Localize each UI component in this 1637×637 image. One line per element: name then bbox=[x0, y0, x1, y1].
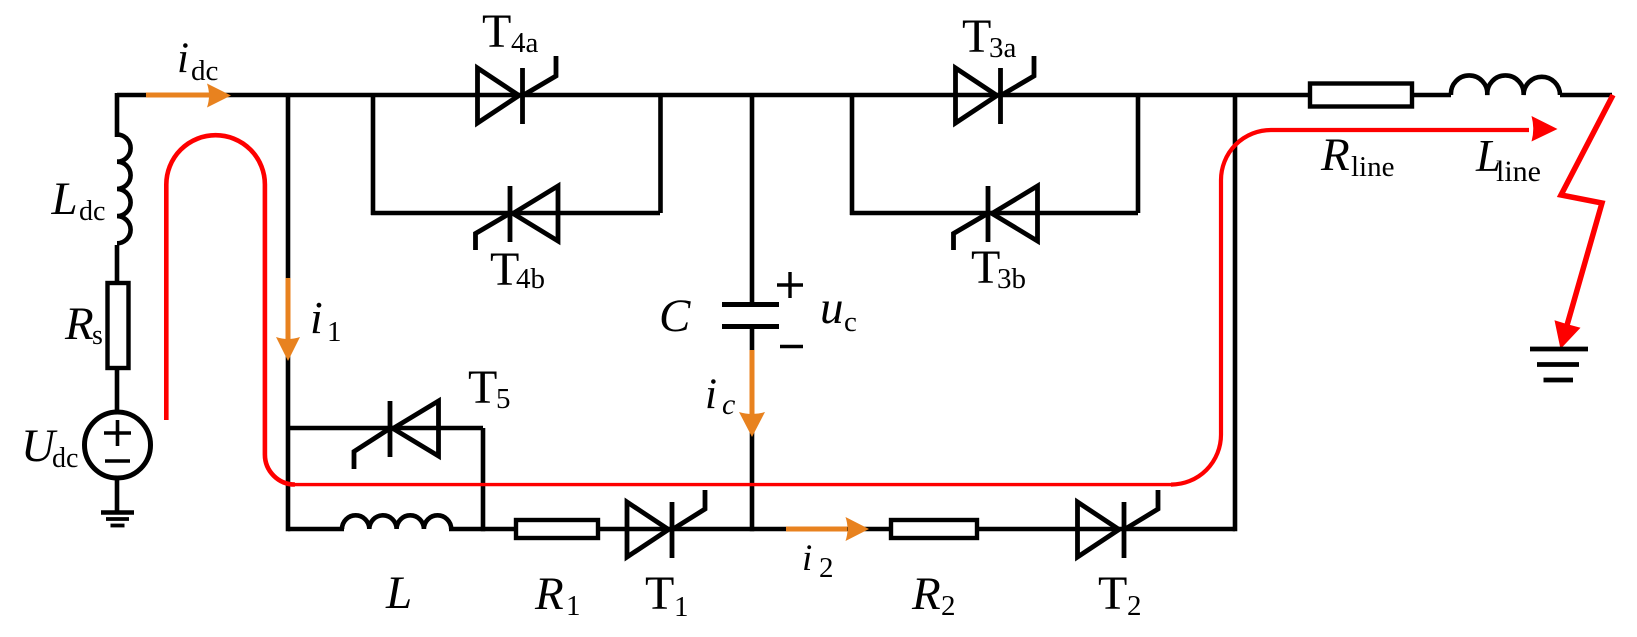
orange arrow i2 bbox=[786, 527, 847, 532]
svg-text:i: i bbox=[802, 538, 812, 579]
svg-text:c: c bbox=[844, 306, 857, 338]
wire T5 branch horizontal bbox=[288, 426, 483, 431]
thyristor T3a bbox=[956, 56, 1035, 124]
ground (fault) bbox=[1530, 347, 1588, 352]
svg-text:T: T bbox=[645, 567, 674, 620]
inductor L bbox=[342, 515, 451, 529]
resistor Rline bbox=[1310, 84, 1412, 107]
plus sign (capacitor) bbox=[777, 272, 803, 298]
wire T3 loop right vertical bbox=[1136, 95, 1141, 213]
red fault current path (right rise) bbox=[1171, 130, 1529, 485]
svg-text:2: 2 bbox=[941, 590, 956, 622]
resistor R1 bbox=[516, 520, 598, 538]
svg-text:i: i bbox=[705, 371, 717, 418]
red arrowhead (to fault) bbox=[1532, 116, 1558, 142]
svg-text:T: T bbox=[490, 243, 519, 296]
svg-text:4a: 4a bbox=[511, 27, 539, 59]
svg-text:T: T bbox=[962, 10, 991, 63]
thyristor T5 bbox=[354, 401, 439, 469]
source Udc bbox=[85, 412, 151, 478]
svg-text:i: i bbox=[310, 292, 323, 343]
wire T3 loop bottom bbox=[850, 211, 1138, 216]
svg-text:R: R bbox=[1320, 129, 1350, 181]
svg-text:L: L bbox=[385, 567, 412, 619]
wire Ldc to Rs bbox=[115, 245, 120, 283]
wire right vertical (to line) bbox=[1233, 95, 1238, 531]
svg-text:2: 2 bbox=[819, 552, 834, 584]
svg-text:2: 2 bbox=[1127, 590, 1142, 622]
thyristor T4b bbox=[476, 186, 559, 250]
svg-text:line: line bbox=[1496, 155, 1541, 188]
svg-text:dc: dc bbox=[52, 443, 78, 474]
inductor Ldc bbox=[117, 135, 131, 244]
svg-text:C: C bbox=[659, 290, 691, 342]
svg-text:dc: dc bbox=[191, 55, 218, 87]
svg-text:i: i bbox=[177, 35, 189, 82]
wire T4 loop left vertical bbox=[371, 95, 376, 215]
minus sign (capacitor) bbox=[780, 345, 803, 348]
wire bottom bus bbox=[288, 527, 1235, 532]
svg-text:3b: 3b bbox=[997, 263, 1026, 295]
svg-text:R: R bbox=[534, 568, 564, 620]
svg-text:4b: 4b bbox=[516, 263, 545, 295]
red fault current path (U-turn) bbox=[166, 135, 295, 484]
wire Rs to source bbox=[115, 368, 120, 412]
thyristor T3b bbox=[954, 186, 1038, 250]
svg-text:u: u bbox=[820, 282, 844, 334]
thyristor T4a bbox=[478, 56, 557, 124]
svg-text:c: c bbox=[722, 388, 735, 421]
wire i1 vertical branch bbox=[286, 95, 291, 531]
svg-text:T: T bbox=[971, 241, 1000, 294]
wire T4 loop right vertical bbox=[658, 95, 663, 213]
thyristor T1 bbox=[627, 490, 705, 558]
svg-text:1: 1 bbox=[566, 590, 581, 622]
red lightning arrowhead bbox=[1555, 320, 1581, 349]
wire T5 branch right vertical bbox=[481, 428, 486, 531]
svg-text:1: 1 bbox=[674, 591, 689, 623]
wire T3 loop left vertical bbox=[850, 95, 855, 215]
capacitor C bbox=[722, 302, 779, 307]
svg-text:R: R bbox=[64, 298, 94, 350]
resistor Rs bbox=[108, 283, 129, 368]
orange arrow i1 bbox=[286, 278, 291, 340]
orange arrow idc bbox=[146, 93, 210, 98]
svg-text:5: 5 bbox=[496, 383, 511, 415]
svg-text:L: L bbox=[51, 173, 78, 225]
svg-text:line: line bbox=[1351, 151, 1395, 183]
wire top bus bbox=[117, 93, 1612, 98]
wire T4 loop bottom bbox=[371, 211, 660, 216]
svg-text:T: T bbox=[468, 361, 497, 414]
svg-text:dc: dc bbox=[79, 196, 105, 227]
wire source to ground bbox=[115, 478, 120, 511]
wire capacitor branch bottom bbox=[750, 328, 755, 531]
resistor R2 bbox=[891, 520, 977, 538]
red lightning (fault) bbox=[1561, 95, 1613, 327]
svg-text:R: R bbox=[911, 568, 941, 620]
svg-text:s: s bbox=[92, 320, 103, 351]
svg-text:1: 1 bbox=[327, 316, 342, 348]
ground (source) bbox=[101, 510, 134, 515]
orange arrow ic bbox=[750, 350, 755, 415]
thyristor T2 bbox=[1078, 490, 1159, 558]
red fault current path (bottom run) bbox=[293, 483, 1171, 486]
wire capacitor branch top bbox=[750, 95, 755, 303]
svg-text:3a: 3a bbox=[989, 32, 1017, 64]
wire left source branch top bbox=[115, 93, 120, 137]
svg-text:T: T bbox=[482, 5, 511, 58]
svg-text:T: T bbox=[1098, 567, 1127, 620]
inductor Lline bbox=[1451, 75, 1560, 95]
